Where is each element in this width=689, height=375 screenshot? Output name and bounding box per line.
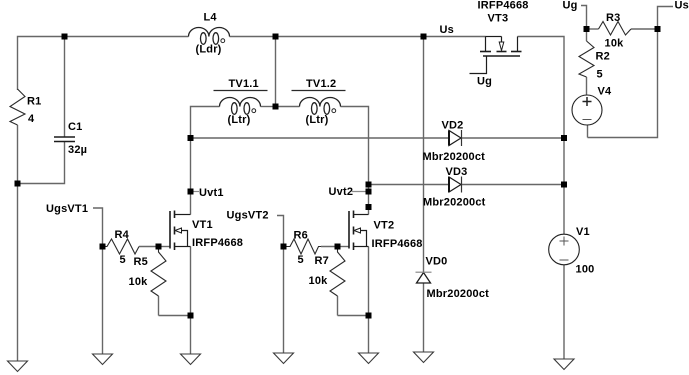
mosfet VT1 xyxy=(170,211,191,251)
svg-text:L4: L4 xyxy=(204,12,218,24)
node: Us junction top xyxy=(421,34,427,40)
wire: V4 bottom lead xyxy=(587,125,589,138)
wire: UgsVT2 rail down to ground G4 xyxy=(283,247,285,354)
wire: rail x368 from VD3 junction down to VT2 drain xyxy=(368,185,370,215)
diode VD0 (cathode up) xyxy=(416,272,432,283)
wire: Uvt2 label tick xyxy=(352,191,369,193)
svg-text:R1: R1 xyxy=(27,96,41,108)
node: VD2 row right junction xyxy=(561,135,567,141)
svg-text:V4: V4 xyxy=(598,86,613,98)
resistor R4 xyxy=(103,239,140,254)
wire: R2 top lead xyxy=(586,29,588,41)
svg-text:C1: C1 xyxy=(68,121,82,133)
wire: Uvt1 label tick xyxy=(191,191,200,193)
node: VT1 gate node xyxy=(156,244,162,250)
wire: R7 bottom to VT2 source rail junction xyxy=(338,315,369,317)
ground G7 xyxy=(554,359,574,370)
svg-text:UgsVT1: UgsVT1 xyxy=(46,203,88,215)
wire: V1 bottom to ground G7 xyxy=(563,265,565,360)
wire: VT2 source rail down to junction and ground G5 xyxy=(368,247,370,354)
wire: UgsVT1 rail down to ground G2 xyxy=(102,247,104,355)
wire: VT1 source rail down to junction and ground G3 xyxy=(190,247,192,355)
svg-text:5: 5 xyxy=(298,254,304,266)
ground G4 xyxy=(274,353,294,364)
resistor R2 xyxy=(579,41,594,77)
wire: VD3 cathode to rail x564 xyxy=(462,184,565,186)
svg-text:5: 5 xyxy=(597,69,603,81)
svg-text:VD3: VD3 xyxy=(446,166,468,178)
wire: L4 output down to transformer centre tap xyxy=(275,37,277,107)
svg-text:10k: 10k xyxy=(309,275,329,287)
svg-text:Mbr20200ct: Mbr20200ct xyxy=(427,288,490,300)
wire: gate node to VT1 gate xyxy=(159,246,171,248)
svg-text:R5: R5 xyxy=(134,256,148,268)
svg-text:UgsVT2: UgsVT2 xyxy=(227,210,269,222)
node: VD3 row right junction xyxy=(561,182,567,188)
svg-text:VT3: VT3 xyxy=(488,13,509,25)
ground G6 xyxy=(414,352,434,363)
node: VT2 source bottom junction xyxy=(366,313,372,319)
wire: R2 bottom to V4 top xyxy=(586,77,588,96)
svg-text:Us: Us xyxy=(440,24,454,36)
svg-text:TV1.1: TV1.1 xyxy=(229,78,259,90)
resistor R7 xyxy=(330,247,345,297)
wire: VD2 row from Uvt1 rail to diode VD2 anode xyxy=(191,137,450,139)
node: VD2 row left junction xyxy=(188,135,194,141)
svg-text:IRFP4668: IRFP4668 xyxy=(192,237,243,249)
svg-text:VD0: VD0 xyxy=(426,256,448,268)
wire: R3 right lead to Us node xyxy=(631,28,658,30)
wire: C1 branch top xyxy=(64,37,66,137)
wire: top rail from L4 to VT3 source xyxy=(230,36,486,38)
wire: R5 bottom lead xyxy=(158,296,160,316)
wire: centre tap to TV1.2 left lead xyxy=(276,106,300,108)
node: Ug / R2 / R3 junction xyxy=(584,26,590,32)
node: R1/C1 bottom junction xyxy=(15,181,21,187)
resistor R1 xyxy=(10,89,25,125)
wire: top rail VT3 drain to right corner, down to VD2 junction xyxy=(518,37,565,139)
wire: TV1.2 right lead and rail x368 down to VD3 row xyxy=(341,107,369,185)
wire: TV1.1 right lead to centre tap xyxy=(261,106,276,108)
diode VD2 xyxy=(449,130,462,146)
svg-text:(Ltr): (Ltr) xyxy=(228,114,251,126)
node: L4 output junction xyxy=(273,34,279,40)
node: transformer centre tap xyxy=(273,104,279,110)
svg-text:(Ldr): (Ldr) xyxy=(196,44,222,56)
svg-text:100: 100 xyxy=(576,264,595,276)
svg-text:TV1.2: TV1.2 xyxy=(306,78,336,90)
node: VD3 row left junction xyxy=(366,182,372,188)
wire: R5 bottom to VT1 source rail junction xyxy=(159,315,191,317)
node: C1 top junction xyxy=(62,34,68,40)
node: Uvt2 tick junction xyxy=(366,189,372,195)
svg-text:VD2: VD2 xyxy=(442,120,464,132)
svg-text:Mbr20200ct: Mbr20200ct xyxy=(423,197,486,209)
svg-text:V1: V1 xyxy=(576,226,590,238)
diode VD3 xyxy=(449,177,462,193)
mosfet VT3 xyxy=(470,37,522,74)
svg-text:IRFP4668: IRFP4668 xyxy=(478,0,529,12)
wire: R7 bottom lead xyxy=(337,296,339,316)
transformer winding TV1.1 xyxy=(220,98,261,115)
svg-text:R4: R4 xyxy=(115,229,130,241)
ground G5 xyxy=(359,353,379,364)
node: R4 left pin xyxy=(100,244,106,250)
resistor R3 xyxy=(599,22,632,36)
wire: rail x564 down to V1 top xyxy=(563,185,565,235)
node: VT2 gate node xyxy=(335,244,341,250)
svg-text:(Ltr): (Ltr) xyxy=(306,114,329,126)
wire: gate node to VT2 gate xyxy=(338,246,350,248)
resistor R5 xyxy=(151,247,166,297)
ground G2 xyxy=(93,354,113,365)
wire: R1/C1 junction to ground G1 xyxy=(17,184,19,362)
wire: Us tick top right corner xyxy=(658,7,674,30)
svg-text:Uvt2: Uvt2 xyxy=(329,186,354,198)
wire: R1 bottom lead xyxy=(17,125,19,184)
voltage source V1 xyxy=(549,234,580,265)
resistor R6 xyxy=(284,239,322,254)
wire: UgsVT1 label tick and drop xyxy=(93,208,103,247)
node: Uvt1 tick junction xyxy=(188,189,194,195)
wire: top rail left of L4 xyxy=(18,37,189,91)
wire: VD2 cathode to rail x564 xyxy=(462,137,565,139)
wire: Us net rail x423 from top rail to VD0 cathode xyxy=(423,37,425,273)
svg-text:32µ: 32µ xyxy=(68,144,87,156)
svg-text:IRFP4668: IRFP4668 xyxy=(372,238,423,250)
wire: VD3 row from Uvt2 rail to diode VD3 anode xyxy=(369,184,450,186)
svg-text:R2: R2 xyxy=(596,51,610,63)
svg-text:5: 5 xyxy=(120,254,126,266)
svg-text:VT1: VT1 xyxy=(192,219,213,231)
transformer winding TV1.2 xyxy=(300,98,341,115)
svg-text:Us: Us xyxy=(675,0,689,12)
svg-text:10k: 10k xyxy=(605,38,625,50)
ground G3 xyxy=(181,354,201,365)
svg-text:R3: R3 xyxy=(606,12,620,24)
wire: R6 right lead to gate node VT2 xyxy=(321,246,338,248)
voltage source V4 xyxy=(572,95,602,125)
wire: C1 bottom to R1 bottom junction xyxy=(18,142,65,184)
wire: Ug tick top right xyxy=(581,6,587,30)
ground G1 xyxy=(8,361,28,372)
svg-text:4: 4 xyxy=(28,113,35,125)
svg-text:10k: 10k xyxy=(129,276,149,288)
node: Us / R3 right junction xyxy=(655,26,661,32)
wire: rail x564 between VD2 and VD3 junctions xyxy=(563,138,565,185)
wire: rail x190 VD2 junction down to VT1 drain xyxy=(190,138,192,215)
svg-text:VT2: VT2 xyxy=(374,220,395,232)
svg-text:R7: R7 xyxy=(315,255,329,267)
svg-text:Mbr20200ct: Mbr20200ct xyxy=(423,151,486,163)
wire: VD0 anode to ground G6 xyxy=(423,283,425,352)
wire: UgsVT2 label tick and drop xyxy=(277,216,284,247)
wire: R4 right lead to gate node VT1 xyxy=(139,246,159,248)
inductor L4 xyxy=(189,28,230,45)
svg-text:Ug: Ug xyxy=(477,76,492,88)
svg-text:Ug: Ug xyxy=(563,0,578,12)
svg-text:Uvt1: Uvt1 xyxy=(199,187,224,199)
wire: TV1.1 left lead and rail down to VD2 row xyxy=(191,107,220,139)
wire: right rail x657 down and V4 loop bottom xyxy=(588,29,658,138)
node: R6 left pin xyxy=(281,244,287,250)
node: VT1 source bottom junction xyxy=(188,313,194,319)
wire: R3 left lead xyxy=(587,28,599,30)
node: VT2 drain pin xyxy=(366,204,372,210)
mosfet VT2 xyxy=(349,211,369,251)
capacitor C1 xyxy=(54,137,75,142)
svg-text:R6: R6 xyxy=(294,230,308,242)
